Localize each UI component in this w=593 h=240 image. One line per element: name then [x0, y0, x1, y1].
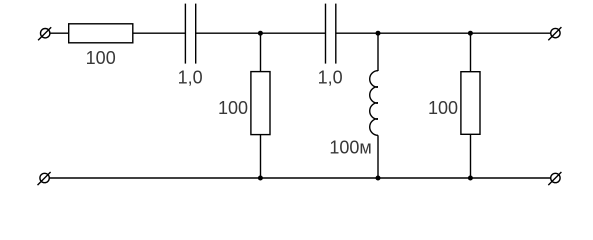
wire top: R1 to C1 — [133, 32, 185, 34]
wire top: C2 to node B — [336, 32, 378, 34]
terminal X3 — [38, 172, 51, 185]
wire top: C1 to node A — [196, 32, 260, 34]
svg-text:1,0: 1,0 — [318, 68, 343, 88]
wire branch: node A down through R2 to bottom — [260, 33, 262, 178]
wire branch: node C down through R3 to bottom — [470, 33, 472, 178]
svg-text:100: 100 — [86, 48, 116, 68]
terminal X2 — [548, 27, 561, 40]
node C' (junction dot bottom) — [468, 176, 473, 181]
wire top: node A to C2 — [260, 32, 325, 34]
node A' (junction dot bottom) — [258, 176, 263, 181]
terminal X4 — [548, 172, 561, 185]
svg-text:100: 100 — [428, 98, 458, 118]
svg-text:100: 100 — [218, 98, 248, 118]
node A (junction dot top) — [258, 31, 263, 36]
capacitor C2 — [326, 4, 336, 64]
wire branch: node B down to L1 — [377, 33, 379, 71]
wire branch: L1 bottom to bottom rail — [377, 135, 379, 178]
node C (junction dot top) — [468, 31, 473, 36]
inductor L1 — [370, 71, 378, 136]
resistor R3 — [461, 72, 480, 135]
wire top: node C to X2 — [470, 32, 555, 34]
capacitor C1 — [185, 4, 195, 64]
wire bottom: X3 to X4 — [45, 177, 556, 179]
svg-text:1,0: 1,0 — [178, 68, 203, 88]
resistor R1 — [69, 24, 133, 43]
terminal X1 — [38, 27, 51, 40]
svg-text:100м: 100м — [329, 138, 371, 158]
node B (junction dot top) — [376, 31, 381, 36]
resistor R2 — [251, 72, 270, 135]
node B' (junction dot bottom) — [376, 176, 381, 181]
wire top: X1 to R1 — [45, 32, 69, 34]
wire top: node B to node C — [378, 32, 470, 34]
